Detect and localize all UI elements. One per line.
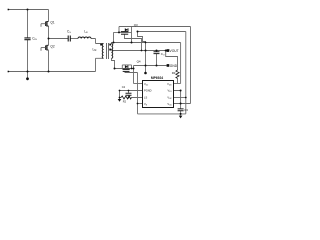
diode D4 loop (Q4 body diode) <box>122 65 131 69</box>
junction dot input bottom <box>27 71 29 73</box>
wire VD2 riser to pin1L <box>133 66 135 84</box>
node gnd probe <box>144 72 147 75</box>
diode D3 arrow <box>125 28 128 31</box>
op-amp U1 : MP6924 IC body <box>143 76 174 107</box>
transistor Q4 gate bar <box>123 70 130 72</box>
ground symbol (RC network) <box>118 99 122 102</box>
capacitor CIN <box>24 38 30 40</box>
resistor R3 <box>176 70 179 78</box>
diode D4 arrow <box>125 65 128 68</box>
junction dot C3 bottom <box>180 113 182 115</box>
junction dot pin2L node <box>119 90 121 92</box>
wire pin4L lead with R2 tail <box>120 97 143 99</box>
svg-text:C3: C3 <box>184 108 188 112</box>
svg-text:Q1: Q1 <box>50 21 54 25</box>
terminal VOUT <box>167 49 170 52</box>
wire pin1L lead <box>134 83 143 85</box>
svg-text:CO: CO <box>161 52 165 57</box>
capacitor C2 <box>126 93 132 95</box>
wire GND line <box>134 65 167 67</box>
capacitor CS <box>68 36 70 42</box>
transistor Q2 gate lead <box>41 48 46 51</box>
wire Cs to Lr <box>70 38 78 40</box>
transistor Q3 channel <box>121 31 129 33</box>
junction dot input top <box>27 9 29 11</box>
wire Q2 source to bottom rail <box>48 50 50 71</box>
phase dot secondary bottom <box>109 49 111 51</box>
transistor Q1 body <box>45 22 47 27</box>
wire Co bottom lead <box>156 54 158 66</box>
wire pin3R lead <box>174 97 186 99</box>
transistor Q3 gate bar <box>121 33 128 35</box>
transistor Q4 channel <box>123 68 130 70</box>
ground symbol (C3) <box>179 116 183 119</box>
svg-text:Q4: Q4 <box>137 59 141 63</box>
capacitor C3 <box>178 109 184 111</box>
svg-text:R3: R3 <box>172 71 176 75</box>
junction dot R2 node <box>119 97 121 99</box>
svg-text:LR: LR <box>84 30 88 35</box>
terminal GND <box>167 64 170 67</box>
wire primary bottom return <box>96 58 104 71</box>
junction dot Q4 drain <box>114 68 116 70</box>
wire staircase source-to-gnd <box>138 32 146 66</box>
node input terminal <box>26 77 29 80</box>
junction dot VD1 tap <box>131 42 133 44</box>
junction dot R3 branch <box>165 50 167 52</box>
terminal input top <box>8 9 10 11</box>
junction dot half-bridge midpoint <box>48 38 50 40</box>
wire Co top lead <box>156 51 158 52</box>
wire left vertical (input bus through Cin) <box>27 10 29 72</box>
wire node VD1 riser <box>131 27 133 43</box>
wire pin4L lead <box>138 103 143 105</box>
capacitor CO <box>154 52 160 54</box>
svg-text:R2: R2 <box>123 100 127 104</box>
junction dot gnd crossing <box>145 65 147 67</box>
junction dot Q3 source branch <box>137 31 139 33</box>
junction dot Q4 source riser <box>133 68 135 70</box>
junction dot pin4R / C3 <box>180 103 182 105</box>
svg-text:PGND: PGND <box>144 89 152 93</box>
wire C2 leads <box>128 91 130 98</box>
svg-text:Q3: Q3 <box>134 23 138 27</box>
junction dot Co bottom <box>156 65 158 67</box>
wire C3 bottom lead to ground <box>180 111 182 116</box>
junction dot Q2 source rail <box>48 71 50 73</box>
wire secondary top lead <box>112 43 181 84</box>
wire R3 bottom to pin <box>177 78 179 83</box>
wire pin1R lead <box>174 83 181 85</box>
wire Q4 gate route <box>125 71 138 72</box>
junction dot Q4 loop right <box>131 68 133 70</box>
junction dot gate landing <box>141 50 143 52</box>
wire Q1 source to midpoint <box>48 26 50 45</box>
wire Lr to primary top <box>91 39 104 44</box>
svg-text:VOUT: VOUT <box>170 49 179 53</box>
transformer secondary winding <box>112 44 113 59</box>
junction dot C2 top <box>128 90 130 92</box>
wire top input rail <box>8 9 49 11</box>
wire midpoint to Cs <box>49 38 69 40</box>
wire Q3 source line to right bus <box>138 31 186 33</box>
wire right outer bus <box>190 27 192 104</box>
transistor Q2 body <box>45 45 47 50</box>
svg-text:C2: C2 <box>122 85 126 89</box>
wire pin4R lead <box>174 103 191 105</box>
wire pin2R lead <box>174 91 181 104</box>
svg-text:MP6924: MP6924 <box>151 76 163 80</box>
svg-text:CS: CS <box>67 30 71 35</box>
phase dot primary <box>100 44 102 46</box>
junction dot Q3 drain <box>118 31 120 33</box>
svg-text:LS: LS <box>144 96 147 100</box>
terminal input bottom <box>8 71 10 73</box>
wire Q4 drain lead <box>115 68 134 70</box>
wire C3 top lead <box>180 104 182 109</box>
wire bottom input rail <box>8 71 96 73</box>
wire Q3 drain lead riser <box>114 32 132 42</box>
junction dot C2 bottom <box>128 97 130 99</box>
wire input ground stub <box>27 72 29 78</box>
wire right inner bus <box>185 32 187 114</box>
svg-text:LM: LM <box>93 48 97 53</box>
wire gnd probe stub <box>145 66 147 73</box>
wire Q3 gate route <box>125 34 142 50</box>
transformer primary winding <box>102 44 103 59</box>
svg-text:CIN: CIN <box>32 37 37 42</box>
resistor R2 <box>121 96 132 99</box>
transformer core <box>107 43 109 59</box>
svg-text:GND: GND <box>170 64 178 68</box>
wire left gate bus VG2 <box>137 73 139 114</box>
junction dot secondary top <box>113 42 115 44</box>
wire bottom wrap VG2 <box>138 113 186 115</box>
wire Q1 drain <box>48 10 50 22</box>
diode D3 loop (Q3 body diode) <box>119 27 132 33</box>
transistor Q1 gate lead <box>41 24 46 27</box>
junction dot vout crossing <box>145 50 147 52</box>
wire RC ground drop <box>119 91 121 100</box>
wire R3 feed from VOUT <box>166 51 178 71</box>
inductor LR <box>78 37 91 39</box>
phase dot secondary top <box>109 44 111 46</box>
wire secondary bottom lead <box>112 58 115 68</box>
wire VD1 top line <box>132 26 191 28</box>
svg-text:Q2: Q2 <box>50 45 54 49</box>
wire VOUT line (center tap) <box>112 50 167 52</box>
wire pin2L lead <box>120 90 143 92</box>
junction dot Co top <box>156 50 158 52</box>
